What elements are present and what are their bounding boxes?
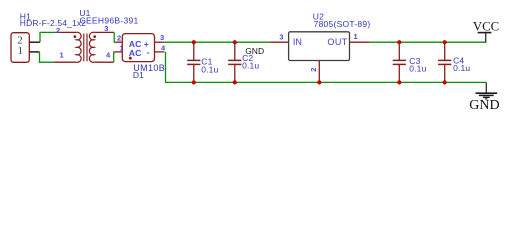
capacitor C3 [393, 42, 406, 82]
svg-text:VCC: VCC [473, 19, 499, 33]
left polarity dot [74, 35, 77, 38]
svg-text:AC: AC [129, 48, 142, 58]
left winding [76, 32, 81, 62]
svg-text:7805(SOT-89): 7805(SOT-89) [314, 19, 371, 29]
svg-text:3: 3 [279, 32, 283, 41]
right polarity dot [93, 35, 96, 38]
svg-text:D1: D1 [133, 70, 144, 80]
junction C2 top [233, 40, 237, 44]
svg-text:0.1u: 0.1u [242, 60, 259, 70]
svg-text:1: 1 [18, 45, 24, 57]
svg-text:0.1u: 0.1u [409, 64, 426, 74]
power port VCC [473, 19, 499, 43]
transformer U1 [54, 24, 114, 62]
ground symbol [469, 82, 499, 112]
capacitor C2 [228, 42, 241, 82]
wire transformer pin3 to bridge pin2 [113, 32, 115, 42]
svg-text:OUT: OUT [327, 37, 347, 47]
capacitor C1 [187, 42, 200, 82]
junction C4 top [443, 40, 447, 44]
svg-text:1: 1 [60, 50, 64, 59]
right winding [89, 32, 94, 62]
svg-text:CEEH96B-391: CEEH96B-391 [80, 16, 139, 26]
wire top rail bridge to U2 [164, 41, 269, 43]
junction C1 top [192, 40, 196, 44]
junction C1 bottom [192, 80, 196, 84]
svg-text:1: 1 [120, 43, 124, 52]
svg-text:2: 2 [117, 34, 121, 43]
svg-text:0.1u: 0.1u [201, 64, 218, 74]
svg-text:GND: GND [245, 46, 264, 56]
wire conn pin1 to transformer pin1 [40, 52, 54, 62]
svg-text:IN: IN [293, 37, 302, 47]
svg-text:-: - [147, 47, 150, 57]
bridge rectifier D1 [114, 33, 166, 62]
regulator U2 [270, 32, 370, 83]
svg-text:2: 2 [309, 68, 318, 72]
svg-text:GND: GND [469, 98, 499, 113]
junction C4 bottom [443, 80, 447, 84]
wire transformer pin4 to bridge pin1 [113, 52, 115, 62]
junction C2 bottom [233, 80, 237, 84]
core [83, 34, 85, 62]
wire U2 out to VCC [370, 41, 486, 43]
junction C3 top [397, 40, 401, 44]
svg-text:2: 2 [56, 26, 60, 35]
connector H1 [11, 33, 40, 63]
junction C3 bottom [397, 80, 401, 84]
pin 2 lead [55, 31, 76, 33]
pin 3 lead [94, 31, 114, 33]
svg-text:3: 3 [160, 33, 164, 42]
wire conn pin2 to transformer pin2 [40, 32, 55, 42]
svg-text:HDR-F-2.54_1x2: HDR-F-2.54_1x2 [20, 18, 86, 28]
capacitor C4 [438, 42, 451, 82]
pin 1 lead [54, 61, 77, 63]
pin 4 lead [94, 61, 114, 63]
svg-text:1: 1 [354, 32, 358, 41]
wire bridge pin4 down to ground rail [166, 52, 487, 83]
svg-text:0.1u: 0.1u [453, 63, 470, 73]
junction U2 gnd [317, 80, 321, 84]
